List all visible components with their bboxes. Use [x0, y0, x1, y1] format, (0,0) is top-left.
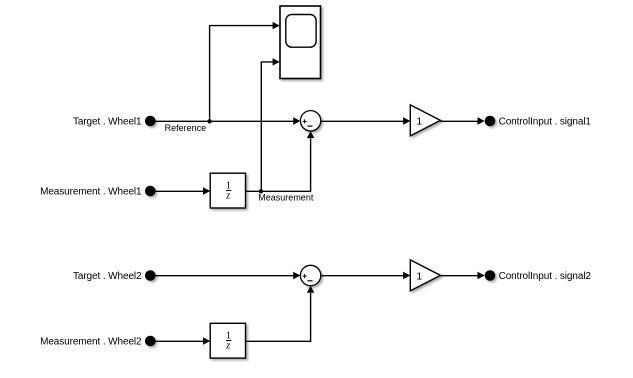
gain block Gain1 — [410, 105, 440, 136]
wire Gain2 to outport — [440, 275, 478, 277]
minus sign Sum1 — [308, 125, 313, 127]
inport Measurement.Wheel1 — [145, 186, 156, 197]
svg-text:z: z — [225, 340, 230, 351]
svg-text:Measurement . Wheel1: Measurement . Wheel1 — [40, 187, 142, 198]
svg-text:Measurement: Measurement — [258, 192, 314, 202]
arrowhead into Gain1 — [403, 117, 410, 124]
junction on Measurement wire — [259, 189, 263, 193]
arrowhead into Gain2 — [403, 272, 410, 279]
svg-text:Target . Wheel1: Target . Wheel1 — [73, 117, 142, 128]
svg-text:Measurement . Wheel2: Measurement . Wheel2 — [40, 337, 142, 348]
svg-text:Target . Wheel2: Target . Wheel2 — [73, 271, 142, 282]
gain block Gain2 — [410, 260, 440, 291]
inport Target.Wheel2 — [145, 270, 156, 281]
wire UnitDelay2 output to Sum2 bottom — [246, 293, 311, 341]
scope block Scope — [280, 6, 321, 79]
arrowhead into UnitDelay1 — [203, 187, 210, 194]
wire Target.Wheel2 to Sum2 — [152, 275, 294, 277]
arrowhead into Sum1 left — [293, 117, 300, 124]
unit delay block UnitDelay1 — [210, 173, 245, 208]
outport ControlInput.signal1 — [485, 116, 496, 127]
junction on Reference wire — [207, 119, 211, 123]
arrowhead up into Sum2 bottom — [307, 286, 314, 293]
inport Measurement.Wheel2 — [145, 336, 156, 347]
arrowhead into Scope input 2 — [273, 58, 280, 65]
fraction bar — [226, 340, 231, 342]
plus sign Sum2 — [303, 274, 307, 278]
sum block Sum1 — [300, 111, 320, 131]
outport ControlInput.signal2 — [485, 270, 496, 281]
arrowhead into Sum2 left — [293, 272, 300, 279]
fraction bar — [226, 189, 231, 191]
minus sign Sum2 — [308, 280, 313, 282]
plus sign Sum1 — [303, 119, 307, 123]
wire Sum1 to Gain1 — [321, 120, 404, 122]
wire Measurement.Wheel2 to UnitDelay2 — [152, 340, 204, 342]
svg-text:ControlInput . signal2: ControlInput . signal2 — [499, 271, 592, 282]
wire Sum2 to Gain2 — [321, 275, 404, 277]
wire Measurement.Wheel1 to UnitDelay1 — [152, 190, 204, 192]
scope screen — [286, 15, 316, 48]
arrowhead into UnitDelay2 — [203, 337, 210, 344]
wire Gain1 to outport — [440, 120, 478, 122]
wire junction to Scope input 2 — [261, 62, 273, 191]
svg-text:Reference: Reference — [165, 123, 207, 133]
arrowhead into outport signal1 — [478, 117, 485, 124]
svg-text:ControlInput . signal1: ControlInput . signal1 — [499, 117, 592, 128]
svg-text:z: z — [225, 190, 230, 201]
inport Target.Wheel1 — [145, 116, 156, 127]
arrowhead into Scope input 1 — [273, 22, 280, 29]
wire Target.Wheel1 to Sum1 — [152, 120, 294, 122]
wire UnitDelay1 output to Sum1 bottom — [246, 138, 311, 191]
arrowhead into outport signal2 — [478, 272, 485, 279]
wire junction to Scope input 1 — [210, 26, 274, 122]
arrowhead up into Sum1 bottom — [307, 131, 314, 138]
svg-text:1: 1 — [416, 271, 422, 283]
sum block Sum2 — [300, 265, 320, 285]
svg-text:1: 1 — [416, 116, 422, 128]
unit delay block UnitDelay2 — [210, 323, 245, 358]
